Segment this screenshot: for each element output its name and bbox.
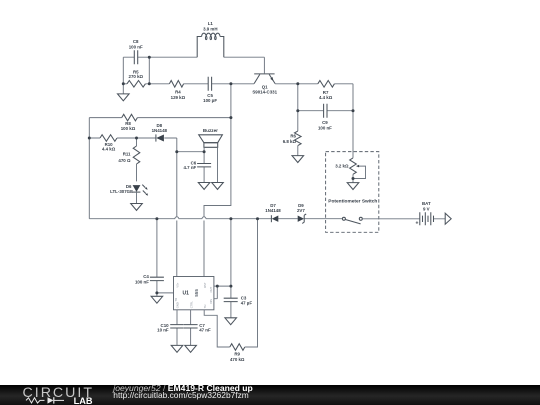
- wire: R10/D8 row y138: [89, 137, 177, 139]
- capacitor C6: [184, 161, 212, 170]
- capacitor C10: [157, 323, 184, 332]
- wire: R9 right to rail vertical x257.5: [245, 219, 258, 347]
- diode D8: [152, 123, 168, 141]
- svg-text:TH: TH: [203, 305, 207, 309]
- junction (156.9,218.7): [155, 217, 158, 220]
- ground (R6): [292, 146, 304, 163]
- resistor R8: [121, 114, 138, 131]
- svg-text:2V7: 2V7: [297, 208, 305, 213]
- svg-text:555: 555: [194, 289, 199, 297]
- junction (123.3,83.8): [122, 82, 125, 85]
- svg-text:100 nF: 100 nF: [129, 44, 143, 49]
- svg-text:C4: C4: [143, 274, 149, 279]
- svg-text:6.8 kΩ: 6.8 kΩ: [283, 139, 297, 144]
- wire: U1 right pins to C3 node: [214, 286, 231, 299]
- svg-text:9 V: 9 V: [423, 207, 430, 212]
- wire: switch to battery: [362, 218, 445, 220]
- svg-text:4.7 nF: 4.7 nF: [184, 165, 197, 170]
- resistor R9: [230, 344, 245, 362]
- svg-text:Buzzer: Buzzer: [203, 128, 218, 133]
- svg-text:+: +: [415, 221, 418, 227]
- junction (149.3,57.2): [148, 56, 151, 59]
- svg-text:DIS: DIS: [209, 299, 213, 304]
- svg-text:4.4 kΩ: 4.4 kΩ: [319, 95, 333, 100]
- wire: vertical from D8 down to U1 pin (x176.8): [176, 138, 178, 277]
- junction (136.5,138): [135, 137, 138, 140]
- wire: left rail x89.3: [88, 118, 90, 219]
- svg-text:R9: R9: [234, 352, 240, 357]
- resistor R5: [127, 69, 145, 87]
- junction (149.3,83.8): [148, 82, 151, 85]
- svg-text:R4: R4: [175, 89, 181, 94]
- svg-text:3.2 kΩ: 3.2 kΩ: [335, 164, 349, 169]
- wire: C4 branch from rail: [157, 219, 174, 293]
- wire: top row y57 (C8 to L1, L1 to Q1 base): [123, 57, 264, 84]
- ground (buzzer right): [212, 183, 224, 190]
- port arrow (battery right): [445, 213, 451, 224]
- svg-text:OUT: OUT: [209, 286, 213, 292]
- resistor R7: [318, 81, 335, 100]
- IC U1 555: [174, 277, 214, 310]
- ground (potentiometer): [347, 183, 359, 190]
- svg-text:VS+: VS+: [176, 282, 180, 288]
- resistor R11: [118, 138, 139, 181]
- svg-text:470 kΩ: 470 kΩ: [230, 357, 245, 362]
- svg-text:47 nF: 47 nF: [199, 327, 211, 332]
- junction (353,110.7): [352, 109, 355, 112]
- ground (buzzer left / C6): [198, 183, 210, 190]
- svg-text:4.4 kΩ: 4.4 kΩ: [102, 147, 116, 152]
- svg-text:S9014-C331: S9014-C331: [252, 89, 277, 94]
- wire: U1 bottom pins: [177, 310, 230, 347]
- svg-text:BAT: BAT: [422, 201, 431, 206]
- svg-text:LAB: LAB: [74, 396, 93, 405]
- svg-text:129 kΩ: 129 kΩ: [171, 95, 186, 100]
- wire: buzzer leads: [177, 147, 218, 182]
- svg-text:Potentiometer Switch: Potentiometer Switch: [328, 199, 377, 205]
- junction (230.9,286.1): [229, 285, 232, 288]
- svg-text:C8: C8: [133, 39, 139, 44]
- junction (353,178.5): [352, 177, 355, 180]
- resistor R6: [283, 131, 301, 146]
- junction (204.1,151.7): [203, 150, 206, 153]
- zener D9: [297, 203, 306, 223]
- svg-text:10 nF: 10 nF: [157, 327, 169, 332]
- ground (C8/R5 left node): [118, 84, 130, 101]
- svg-text:100 nF: 100 nF: [318, 126, 332, 131]
- ground (C10): [171, 345, 183, 352]
- svg-text:270 kΩ: 270 kΩ: [129, 74, 144, 79]
- wire: C9 row y110.7: [298, 110, 353, 112]
- svg-text:C9: C9: [322, 120, 328, 125]
- svg-text:L1: L1: [208, 21, 214, 26]
- svg-text:R6: R6: [290, 133, 296, 138]
- diode D7: [265, 203, 281, 222]
- junction (297.8,83.8): [296, 82, 299, 85]
- junction (89.3,138): [88, 137, 91, 140]
- switch (SPST, in box): [342, 217, 362, 224]
- junction (156.9,292.9): [155, 291, 158, 294]
- svg-text:CTRL: CTRL: [189, 301, 193, 309]
- ground (C4): [151, 293, 163, 303]
- svg-text:47 µF: 47 µF: [241, 300, 253, 305]
- capacitor C9: [318, 104, 332, 131]
- svg-text:http://circuitlab.com/c5pw3262: http://circuitlab.com/c5pw3262b7fzm: [113, 390, 248, 400]
- svg-text:LTL-307GE: LTL-307GE: [110, 189, 133, 194]
- svg-text:3.9 mH: 3.9 mH: [203, 27, 217, 32]
- ground (C7): [185, 345, 197, 352]
- svg-text:GND: GND: [176, 302, 180, 308]
- LED D6: [110, 184, 148, 204]
- svg-text:U1: U1: [183, 291, 190, 297]
- svg-text:100 nF: 100 nF: [135, 279, 149, 284]
- svg-text:470 Ω: 470 Ω: [118, 158, 131, 163]
- wire: main row y84: [123, 84, 353, 158]
- junction (176.8,151.7): [175, 150, 178, 153]
- resistor R10: [100, 135, 117, 152]
- dashed box Potentiometer Switch: [326, 152, 379, 233]
- ground (D6): [131, 204, 143, 211]
- capacitor C3: [224, 296, 253, 306]
- capacitor C5: [203, 77, 217, 103]
- svg-text:1N4148: 1N4148: [152, 128, 168, 133]
- wire: Q1 emitter node down to R6: [297, 84, 299, 131]
- junction (297.8,110.7): [296, 109, 299, 112]
- junction (230.9,83.8): [229, 82, 232, 85]
- svg-text:1N4148: 1N4148: [265, 208, 281, 213]
- battery BAT 9V: [415, 201, 433, 226]
- buzzer: [199, 128, 223, 147]
- inductor L1: [197, 21, 224, 57]
- svg-text:R11: R11: [123, 151, 131, 156]
- wire: C3 vertical from rail: [230, 219, 232, 318]
- capacitor C8: [129, 39, 143, 64]
- junction (217.3,286.1): [216, 285, 219, 288]
- svg-text:C5: C5: [207, 93, 213, 98]
- wire: R8 row y117.6: [89, 117, 231, 119]
- wire: bottom rail y218.7: [89, 217, 342, 219]
- potentiometer 3.2k: [335, 158, 365, 183]
- capacitor C4: [135, 274, 164, 284]
- junction (230.9,117.6): [229, 116, 232, 119]
- svg-text:100 kΩ: 100 kΩ: [121, 126, 136, 131]
- resistor R4: [169, 81, 185, 100]
- svg-text:RST: RST: [203, 282, 207, 288]
- ground (C3): [225, 318, 237, 325]
- svg-text:TR: TR: [174, 298, 178, 302]
- junction (257.5,218.7): [256, 217, 259, 220]
- junction (230.9,218.7): [229, 217, 232, 220]
- capacitor C7: [184, 323, 211, 332]
- svg-text:100 pF: 100 pF: [203, 98, 217, 103]
- wire: long vertical x230.9 with jog to x204: [204, 84, 231, 277]
- transistor Q1: [252, 74, 277, 95]
- footer bar: [0, 385, 540, 405]
- CircuitLab logo and footer text: [0, 384, 540, 405]
